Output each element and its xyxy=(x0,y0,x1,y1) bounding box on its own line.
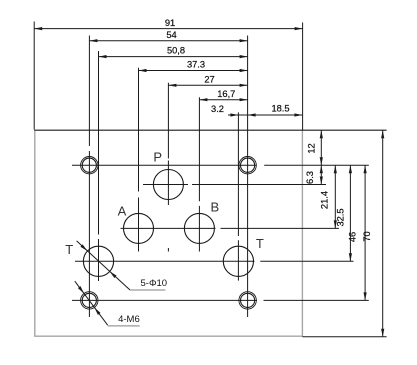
svg-text:70: 70 xyxy=(362,231,372,241)
centerline T left column x=98.5 xyxy=(98,51,100,281)
svg-text:B: B xyxy=(210,199,219,214)
dimension 16,7 xyxy=(199,89,247,101)
dimension 91 xyxy=(34,18,302,30)
hole T left xyxy=(83,246,113,276)
svg-text:6.3: 6.3 xyxy=(305,171,315,184)
hole M6 bottom-right xyxy=(239,292,256,309)
svg-text:21.4: 21.4 xyxy=(319,191,329,209)
centerline M6 left column x=89.4 xyxy=(88,36,90,318)
dimension 6.3 (vertical) xyxy=(305,165,323,184)
dimension 70 (vertical) xyxy=(362,130,385,337)
dimension 46 (vertical) xyxy=(348,165,367,300)
label 5-phi10 with grey underline xyxy=(130,289,165,291)
centerline M6 bottom row y=300.4 xyxy=(72,299,369,301)
svg-text:32.5: 32.5 xyxy=(335,208,345,226)
hole M6 top-right xyxy=(239,157,256,174)
dimension 21.4 (vertical) xyxy=(319,165,337,228)
svg-text:4-M6: 4-M6 xyxy=(118,314,140,325)
svg-text:T: T xyxy=(256,236,264,251)
centerline P column x=168.4 xyxy=(167,83,169,252)
svg-text:A: A xyxy=(118,203,127,218)
svg-text:T: T xyxy=(65,242,73,257)
svg-text:5-Φ10: 5-Φ10 xyxy=(141,278,168,289)
label 4-M6 with grey underline xyxy=(108,325,140,327)
dimension 54 xyxy=(89,30,247,42)
hole A xyxy=(124,213,154,243)
svg-text:91: 91 xyxy=(165,18,175,28)
dimension 32.5 (vertical) xyxy=(335,165,352,261)
hole P xyxy=(153,170,183,200)
svg-text:3.2: 3.2 xyxy=(211,104,224,114)
leader 4-M6 to bottom-left M6 hole xyxy=(75,281,108,325)
centerline T row y=261.3 xyxy=(75,260,354,262)
svg-text:46: 46 xyxy=(348,232,358,242)
centerline P row y=184.5 xyxy=(143,184,326,186)
svg-text:27: 27 xyxy=(204,75,214,85)
hole T right xyxy=(223,246,253,276)
svg-text:P: P xyxy=(153,149,162,164)
bottom edge extension (black) to 70-dim xyxy=(302,336,386,338)
leader T to left T hole xyxy=(77,241,130,290)
dimension 27 xyxy=(168,75,247,87)
dimension 12 (vertical) xyxy=(307,130,323,165)
centerline M6 top row y=165.2 xyxy=(72,164,369,166)
hole B xyxy=(184,213,214,243)
plate outline (grey body edges) xyxy=(35,130,303,336)
dimension 50,8 xyxy=(99,46,248,59)
svg-text:18.5: 18.5 xyxy=(271,104,289,114)
svg-text:37.3: 37.3 xyxy=(187,60,205,70)
hole M6 top-left xyxy=(81,157,98,174)
extension line right edge x=302.6 xyxy=(302,23,304,131)
centerline B column x=199.4 xyxy=(198,97,200,251)
hole M6 bottom-left xyxy=(81,292,98,309)
svg-text:16,7: 16,7 xyxy=(217,89,235,99)
plate top edge (black) with extension to 70-dim xyxy=(34,129,386,131)
dimension 3.2 (arrows outside) xyxy=(211,104,248,117)
centerline M6 right column x=247.6 xyxy=(247,36,249,318)
centerline T right column x=238.4 xyxy=(237,112,239,280)
svg-text:54: 54 xyxy=(166,30,176,40)
dimension 18.5 xyxy=(248,104,303,117)
svg-text:50,8: 50,8 xyxy=(167,46,185,56)
svg-text:12: 12 xyxy=(307,143,317,153)
centerline A column x=138.5 xyxy=(138,68,140,252)
dimension 37.3 xyxy=(139,60,248,73)
extension line left edge x=34.2 xyxy=(33,22,35,130)
centerline A/B row y=228.4 xyxy=(121,227,339,229)
